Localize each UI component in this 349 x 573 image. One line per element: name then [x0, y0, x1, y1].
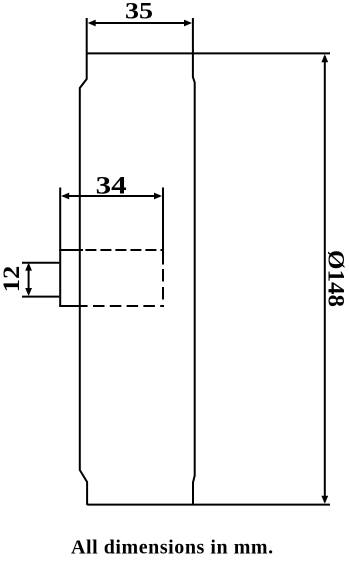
svg-text:Ø148: Ø148: [324, 250, 349, 307]
wire: body left edge with chamfer jogs (also 35-dim left extension line): [80, 18, 87, 505]
wire: 34 dimension line: [63, 195, 160, 197]
svg-text:12: 12: [0, 266, 24, 293]
arrowhead: 12-dim down: [25, 288, 32, 296]
arrowhead: 34-dim left: [61, 193, 69, 200]
wire: body top line extended right as O148 top extension line: [87, 52, 330, 54]
wire: O148 dimension line: [324, 56, 326, 502]
wire: 12-dim top extension line: [22, 262, 59, 264]
wire: hub boss top edge (solid): [59, 249, 83, 251]
arrowhead: 35-dim right: [184, 20, 192, 27]
arrowhead: 12-dim up: [25, 263, 32, 271]
wire: 34-dim right extension line: [162, 188, 164, 265]
svg-text:All dimensions in mm.: All dimensions in mm.: [71, 537, 274, 559]
wire: hub hidden top edge (dashed): [85, 249, 163, 251]
wire: 34-dim left extension line / hub boss left edge: [59, 188, 61, 307]
wire: body bottom line extended right as O148 bottom extension line: [87, 504, 330, 506]
svg-text:35: 35: [125, 0, 153, 24]
wire: hub boss bottom edge (solid): [59, 305, 87, 307]
arrowhead: O148-dim down: [321, 496, 328, 504]
wire: body right edge with chamfer jogs (also 35-dim right extension line): [193, 18, 195, 505]
wire: 35 dimension line: [90, 22, 190, 24]
svg-text:34: 34: [96, 172, 128, 199]
wire: 12 dimension line: [28, 265, 30, 294]
arrowhead: 35-dim left: [88, 20, 96, 27]
wire: 12-dim bottom extension line: [22, 296, 59, 298]
wire: hub hidden bottom edge (dashed): [93, 305, 163, 307]
arrowhead: O148-dim up: [321, 54, 328, 62]
wire: hub hidden right edge (dashed): [162, 269, 164, 307]
arrowhead: 34-dim right: [154, 193, 162, 200]
